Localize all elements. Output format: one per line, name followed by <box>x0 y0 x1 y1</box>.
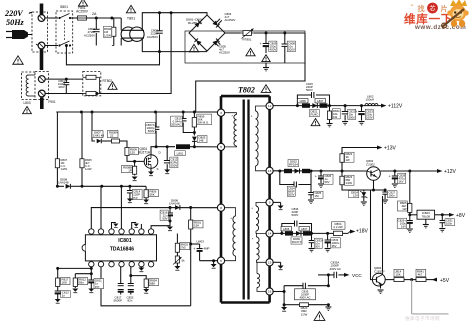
svg-text:400V AC: 400V AC <box>330 267 341 271</box>
ground below C822 <box>342 122 348 125</box>
inductor L806a <box>302 103 310 107</box>
wire +12V to R825 <box>409 171 411 201</box>
resistor R841 <box>416 278 431 282</box>
capacitor D811 <box>88 279 94 289</box>
mosfet Q801 <box>144 151 161 172</box>
svg-text:15: 15 <box>268 261 272 265</box>
wire feedback rail <box>82 185 146 188</box>
safety enclosure box <box>185 31 305 63</box>
svg-text:148: 148 <box>199 139 204 143</box>
wire degauss return to top bus <box>95 13 171 95</box>
label +8V <box>456 213 466 219</box>
label D808 <box>58 178 69 185</box>
capacitor C808 <box>282 33 289 63</box>
inductor L807b <box>303 231 311 235</box>
T802 secondary winding 1 <box>251 106 267 171</box>
wire bottom bus into T801 <box>120 38 122 45</box>
svg-text:5: 5 <box>220 145 222 149</box>
svg-text:S: S <box>157 167 159 171</box>
resistor R816 <box>144 278 148 290</box>
ground below R812 <box>72 289 78 293</box>
svg-text:L807: L807 <box>301 227 308 231</box>
ground below C812 <box>164 170 170 174</box>
svg-text:400V: 400V <box>58 85 65 89</box>
svg-text:4MP: 4MP <box>204 247 210 251</box>
ground below C831 <box>439 229 445 232</box>
resistor R803 <box>175 234 179 255</box>
thermistor RT801 <box>241 29 255 39</box>
resistor R807 <box>55 112 59 186</box>
capacitor C815 bypass loop <box>297 92 329 106</box>
label C822 <box>348 109 356 119</box>
label RT801 <box>243 38 252 42</box>
svg-text:C2002: C2002 <box>366 163 375 167</box>
svg-text:1/2W: 1/2W <box>104 33 111 37</box>
wire pin2 up <box>100 186 102 229</box>
svg-text:1N41 48: 1N41 48 <box>93 134 104 138</box>
svg-text:AC250V: AC250V <box>147 35 158 39</box>
T802 primary winding <box>224 113 237 147</box>
ground below C827 <box>382 200 388 203</box>
label R809 snubber <box>197 114 212 125</box>
resistor R806 <box>144 186 148 199</box>
wire degauss top <box>45 78 83 81</box>
diode D821 <box>312 103 317 108</box>
wire pin1 to T802 pin8 <box>91 206 218 229</box>
label R805 <box>85 158 92 171</box>
label C835A <box>330 261 341 272</box>
svg-text:8: 8 <box>220 206 222 210</box>
mains input label 220V 50Hz <box>4 9 37 27</box>
svg-text:68K: 68K <box>150 282 155 286</box>
capacitor C814 <box>127 186 133 198</box>
label R821 <box>332 109 340 119</box>
label VCC <box>352 273 362 278</box>
label C831 <box>445 219 455 226</box>
label T801 <box>127 17 135 21</box>
svg-text:2A: 2A <box>92 12 97 16</box>
resistor R804 <box>334 231 343 235</box>
svg-text:400V: 400V <box>270 48 277 52</box>
arrow +112V <box>381 104 386 108</box>
degauss coil L803 <box>26 75 35 96</box>
capacitor C826 electrolytic <box>404 215 413 228</box>
label C825b <box>314 191 324 198</box>
label C836 <box>295 289 316 300</box>
label R806 <box>149 190 159 197</box>
wire pin6 stub up <box>140 224 142 229</box>
wire R825 node <box>408 213 417 216</box>
label L807a <box>315 99 326 103</box>
label R822 <box>345 152 355 162</box>
svg-text:2.2 2W: 2.2 2W <box>333 225 342 229</box>
svg-text:56K: 56K <box>150 193 155 197</box>
label +112V <box>388 104 403 110</box>
svg-text:RL255 X4: RL255 X4 <box>188 21 202 25</box>
wire switch to fuse <box>70 17 77 19</box>
resistor R823 <box>340 171 371 190</box>
label D821 <box>310 110 320 117</box>
wire T801 to bottom bus B <box>142 38 207 53</box>
label Q801 <box>138 147 151 154</box>
wire connector bottom to degauss <box>41 49 43 70</box>
label C809 <box>269 41 277 52</box>
ground Q804 emitter <box>378 290 384 293</box>
wire bridge to RT801 <box>225 32 241 34</box>
label D801-D804 <box>186 18 203 26</box>
warning triangle above T801 <box>126 5 135 12</box>
label R817 <box>61 278 71 285</box>
label R803 <box>180 243 190 250</box>
svg-text:15K: 15K <box>194 224 199 228</box>
T802 pin 13 <box>266 167 273 174</box>
label R808B <box>122 166 133 173</box>
label 2A <box>92 12 97 16</box>
label C803 <box>58 79 66 89</box>
label C827 <box>388 191 398 198</box>
switch pole 2 <box>58 41 71 47</box>
ground below C832 <box>309 249 315 252</box>
label L801 <box>175 151 186 156</box>
wire pin6 branch <box>200 259 218 262</box>
svg-text:1R: 1R <box>128 169 132 173</box>
svg-text:6: 6 <box>220 259 222 263</box>
svg-text:+: + <box>260 42 262 46</box>
svg-text:芯: 芯 <box>429 5 435 13</box>
capacitor C822 <box>342 106 349 121</box>
svg-text:1W: 1W <box>333 115 338 119</box>
wire +112V rail <box>273 104 381 107</box>
capacitor C816 electrolytic <box>164 208 173 222</box>
svg-text:+: + <box>193 247 195 251</box>
IC U801 TDA16846 body <box>82 235 156 261</box>
inductor L802 <box>365 103 378 105</box>
svg-text:5600P: 5600P <box>114 299 122 303</box>
svg-text:4k7: 4k7 <box>418 273 423 277</box>
pin5 ground hook <box>132 223 139 230</box>
ground below C826b <box>318 184 324 187</box>
wire bottom control bus <box>101 266 191 306</box>
svg-text:IC801: IC801 <box>118 238 132 244</box>
switch S801 dashed box <box>56 11 73 53</box>
ground below pin6 wire <box>211 261 217 269</box>
inductor L801 <box>176 144 190 149</box>
wire VCC line <box>318 274 334 276</box>
ground below C826 <box>407 229 413 232</box>
svg-text:1/2W: 1/2W <box>61 167 68 171</box>
resistor R820 <box>283 303 330 307</box>
label C813 <box>61 291 71 298</box>
svg-text:VCC: VCC <box>352 273 362 278</box>
svg-text:500V: 500V <box>171 164 178 168</box>
capacitor C813 <box>55 288 61 299</box>
resistor R801 <box>189 208 193 306</box>
switch S801 label <box>60 5 68 9</box>
svg-text:P.P.: P.P. <box>95 285 100 289</box>
inductor L807a <box>320 103 328 107</box>
transformer T802 core <box>244 100 249 300</box>
svg-text:12: 12 <box>268 104 272 108</box>
label C834 <box>292 207 299 217</box>
arrow +13V <box>377 146 382 150</box>
svg-text:T802: T802 <box>238 86 255 95</box>
wire C816 to pin7 <box>151 220 171 230</box>
label L807b <box>299 227 310 231</box>
wire +B to primary <box>196 33 305 112</box>
wire zener node to Q804 base <box>371 190 373 280</box>
wire pin1 bottom column <box>90 266 93 279</box>
arrow +5V <box>431 278 437 282</box>
wire plug to connector <box>36 44 38 46</box>
wire Q804 emitter <box>380 284 382 288</box>
svg-text:RT801: RT801 <box>243 38 252 42</box>
wire drain <box>151 147 156 155</box>
ground below C823 <box>359 122 365 125</box>
wire R817 branch <box>56 267 91 270</box>
node +5V junction <box>409 278 417 281</box>
svg-text:L806: L806 <box>300 99 307 103</box>
svg-text:RT802: RT802 <box>103 79 113 83</box>
label C804 <box>225 12 236 22</box>
inductor L806b <box>285 231 293 235</box>
svg-text:1W: 1W <box>402 207 407 211</box>
zener D805 <box>192 133 197 147</box>
capacitor C834 bypass loop <box>282 221 312 234</box>
label R801 <box>193 221 203 228</box>
label R802 <box>103 27 111 38</box>
resistor R809 snubber <box>192 112 196 134</box>
svg-text:50V: 50V <box>315 245 320 249</box>
capacitor C828 electrolytic <box>389 171 398 183</box>
ground below R816 <box>143 289 149 293</box>
svg-text:500V: 500V <box>292 213 299 217</box>
ground pin15 <box>278 266 284 270</box>
svg-text:1n: 1n <box>62 294 66 298</box>
wire base rail <box>364 189 387 192</box>
svg-text:500V: 500V <box>148 129 155 133</box>
svg-text:500V: 500V <box>349 116 356 120</box>
wire +12V rail <box>273 170 437 173</box>
diode D806 <box>175 205 180 210</box>
svg-text:50V: 50V <box>325 180 330 184</box>
watermark mascot <box>442 0 469 28</box>
T802 secondary winding 2 <box>252 202 267 233</box>
wire IC803 out <box>435 213 449 216</box>
wire degauss bottom <box>45 93 83 95</box>
capacitor C833 electrolytic <box>321 233 330 247</box>
label +13V <box>384 146 396 152</box>
warning triangle T802 <box>261 85 271 93</box>
svg-text:250VAC: 250VAC <box>171 123 182 127</box>
warning triangle below plug <box>13 56 23 64</box>
svg-text:AC250V: AC250V <box>84 33 95 37</box>
svg-text:1N4148: 1N4148 <box>169 202 180 206</box>
thermistor RT802 element bottom <box>83 77 100 95</box>
svg-text:AC250V: AC250V <box>225 18 236 22</box>
T802 secondary winding 4 <box>257 262 267 291</box>
ground below C809 <box>263 63 269 71</box>
resistor R805 <box>80 112 84 186</box>
svg-text:22: 22 <box>110 134 114 138</box>
IC801 bottom pins <box>89 261 154 267</box>
inductor L809 <box>302 169 310 173</box>
ground below C828 <box>392 184 398 187</box>
capacitor C807A <box>153 112 160 147</box>
label +5V <box>440 278 450 284</box>
svg-text:www.dzsc.com: www.dzsc.com <box>414 24 466 31</box>
wire Q801 source to ground <box>150 168 152 171</box>
label L806b <box>281 227 292 231</box>
label Q804 <box>374 266 386 274</box>
ground below C816 <box>167 227 173 231</box>
warning triangle above fuse <box>78 0 87 6</box>
wire drain rail to L801 <box>155 145 196 148</box>
svg-text:1K8: 1K8 <box>62 281 68 285</box>
switch pole 1 <box>58 14 71 20</box>
wire RT801 to C809 C808 nodes <box>254 32 305 35</box>
label Q802 <box>366 159 375 167</box>
svg-text:50V: 50V <box>162 217 167 221</box>
svg-text:35V: 35V <box>332 244 337 248</box>
wire Q804 to R814 <box>385 279 394 281</box>
label D822 <box>288 160 299 167</box>
capacitor C812 <box>164 147 171 170</box>
svg-text:1/2W: 1/2W <box>301 312 308 316</box>
label +18V <box>356 229 368 235</box>
mains plug symbol <box>6 30 36 44</box>
svg-text:400V AC: 400V AC <box>299 296 310 300</box>
label R809 <box>129 148 139 155</box>
fuse F801 label <box>76 6 89 13</box>
svg-text:LW03: LW03 <box>197 240 205 244</box>
svg-text:1/2W: 1/2W <box>85 167 92 171</box>
resistor R808B <box>133 161 137 175</box>
wire T801 to top bus B <box>142 11 207 30</box>
T802 aux winding <box>224 208 236 261</box>
wire primary top rail <box>56 111 218 114</box>
svg-text:10K: 10K <box>396 273 401 277</box>
label D824 <box>349 191 359 198</box>
arrow +12V <box>437 169 442 173</box>
ground below Q801 <box>148 172 154 176</box>
svg-text:+: + <box>355 110 357 114</box>
preset R811 <box>173 255 182 267</box>
ground below preset <box>174 266 180 270</box>
resistor R802 <box>112 18 116 46</box>
label R804 <box>332 222 346 229</box>
diode D809 <box>296 231 301 236</box>
resistor R809 <box>125 146 129 157</box>
label R814 <box>394 269 404 276</box>
svg-text:16V: 16V <box>399 180 404 184</box>
capacitor C810 <box>180 112 195 133</box>
label D807 <box>92 131 104 138</box>
capacitor C827 <box>382 190 388 199</box>
svg-text:500V: 500V <box>306 88 313 92</box>
resistor R816 branch <box>131 276 146 278</box>
svg-text:16: 16 <box>268 290 272 294</box>
label L802 <box>366 95 375 102</box>
label R807 <box>61 158 68 171</box>
diode D808 <box>56 184 84 189</box>
connector XS801 dashed box <box>32 12 48 52</box>
label CW03 <box>197 240 210 251</box>
pin3 ground hook <box>112 223 119 230</box>
svg-text:RU3YX: RU3YX <box>292 240 302 244</box>
capacitor C804 across top-right arm <box>216 19 222 25</box>
connector pin bottom <box>38 42 45 49</box>
wire pin15 ground <box>273 262 281 265</box>
resistor R821 <box>327 106 331 121</box>
svg-text:9: 9 <box>269 201 271 205</box>
svg-text:16V: 16V <box>401 225 406 229</box>
T802 pin 5 <box>217 143 224 150</box>
arrow +18V <box>348 230 355 234</box>
thermistor RT802 dashed box <box>83 71 101 96</box>
label RT802 <box>103 79 113 83</box>
wire R812 branch <box>75 273 91 275</box>
label C808 <box>287 41 295 52</box>
label R808A <box>108 131 119 138</box>
IC801 top pins <box>89 229 154 235</box>
thick lead below F901 <box>40 98 44 110</box>
arrow VCC <box>344 273 349 277</box>
T802 pin 16 <box>266 288 273 295</box>
wire pin4 up <box>120 186 122 229</box>
capacitor C818 pair <box>128 266 134 294</box>
transformer T802 frame <box>221 96 270 302</box>
watermark text weiku <box>404 12 453 26</box>
T802 pin 8 <box>217 204 224 211</box>
wire gate branch <box>92 112 95 141</box>
svg-text:+12V: +12V <box>444 169 456 175</box>
label C828 <box>398 173 406 183</box>
snubber network box left <box>283 286 285 305</box>
warning triangle below L803 <box>23 107 32 114</box>
svg-text:RU4C: RU4C <box>311 113 319 117</box>
label T802 <box>238 86 255 95</box>
svg-text:片: 片 <box>441 4 448 13</box>
label C826b <box>324 174 334 184</box>
ground below IC803 <box>423 219 429 228</box>
wire +5V feedback down <box>411 280 413 314</box>
diode D807 <box>97 139 107 144</box>
svg-text:AC250V: AC250V <box>219 51 230 55</box>
svg-text:AC250V: AC250V <box>76 9 89 13</box>
wire fuse to T801 corner <box>87 17 122 20</box>
svg-text:500V: 500V <box>288 193 295 197</box>
svg-text:BUZ71A: BUZ71A <box>138 151 151 155</box>
diode D822 <box>295 169 300 174</box>
label C805 <box>219 45 230 55</box>
resistor R808A <box>107 139 124 143</box>
degauss coil L803 dashed box <box>22 72 36 100</box>
svg-text:50Hz: 50Hz <box>6 18 25 27</box>
svg-text:100n: 100n <box>389 194 396 198</box>
label C801 <box>84 27 96 37</box>
line filter T801 <box>121 27 144 41</box>
resistor R822 <box>340 150 344 166</box>
ground below C813 <box>55 299 61 303</box>
svg-text:TDA16846: TDA16846 <box>110 246 134 252</box>
svg-text:2W M.O.: 2W M.O. <box>198 121 210 125</box>
ground below C825b <box>308 200 314 203</box>
label C814 <box>132 190 142 200</box>
ground below D824 <box>361 202 367 205</box>
label C816 <box>160 210 168 220</box>
wire R809 to gate <box>127 157 145 163</box>
bridge rectifier D801-D804 <box>189 15 225 51</box>
